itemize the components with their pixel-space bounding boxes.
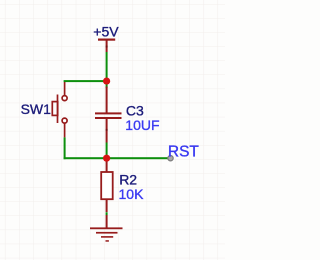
power flag +5V [98,39,115,53]
wire: +5V to node A [106,52,108,81]
terminal RST (unconnected pin end) [168,156,173,161]
junction node B [103,155,110,162]
svg-text:C3: C3 [126,102,144,118]
svg-text:SW1: SW1 [21,101,52,117]
resistor R2 [101,162,113,213]
pin end mark, +5V flag [106,46,108,48]
junction node A [103,78,110,85]
switch SW1 [52,82,67,137]
svg-text:10K: 10K [119,186,145,202]
wire: resistor R2 to ground [106,212,108,215]
capacitor C3 [95,87,122,143]
ground [90,215,123,242]
wire: node A to capacitor C3 top [106,85,108,89]
svg-text:10UF: 10UF [125,117,159,133]
wire: capacitor C3 bottom to node B [106,143,108,157]
svg-text:+5V: +5V [93,24,119,40]
wire: switch SW1 bottom to node B [64,137,171,159]
wire: node A to switch SW1 top [64,80,107,82]
pin end mark, C3 pin 2 [106,129,108,131]
svg-text:RST: RST [168,143,200,160]
